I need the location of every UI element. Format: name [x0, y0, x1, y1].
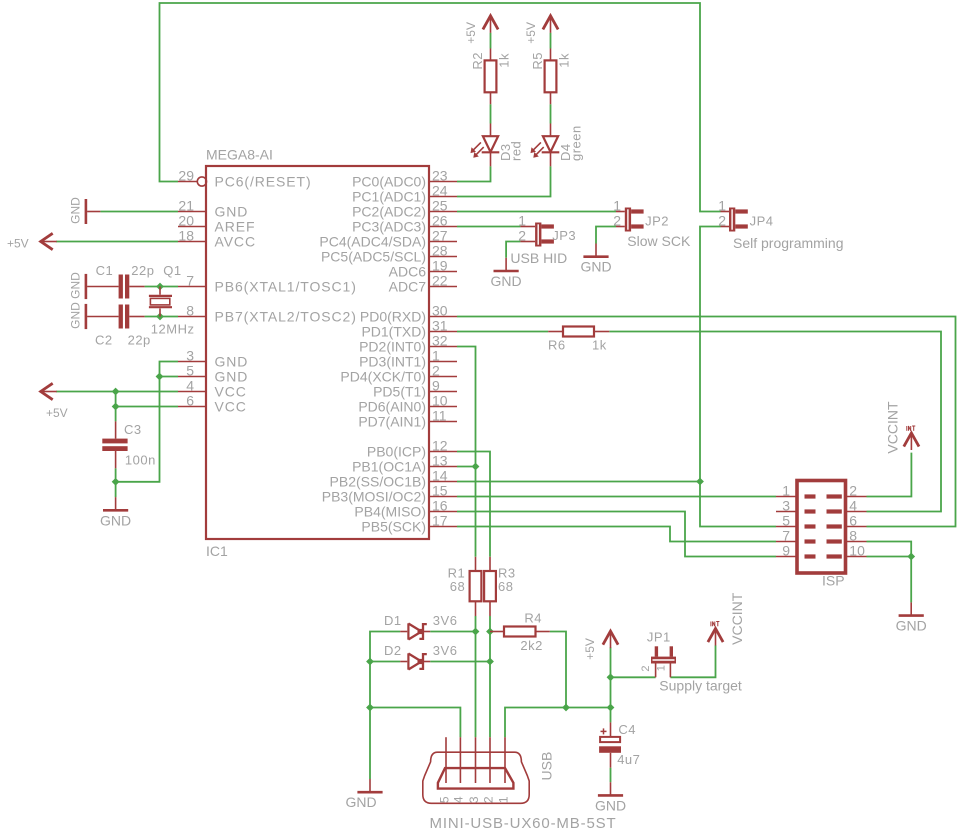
svg-text:PB0(ICP): PB0(ICP) — [367, 444, 426, 460]
svg-text:C4: C4 — [618, 722, 636, 737]
ground symbol below ISP — [896, 602, 927, 633]
VCCINT supply arrow at JP1 — [708, 622, 723, 646]
wire XTAL2 row to IC pin 8 — [145, 316, 178, 318]
svg-text:2: 2 — [640, 665, 652, 671]
svg-text:3: 3 — [782, 498, 790, 514]
svg-text:6: 6 — [849, 513, 857, 529]
svg-text:PC0(ADC0): PC0(ADC0) — [352, 174, 426, 190]
resistor R2 1k — [470, 49, 512, 105]
wire +5V node down to C3 top — [115, 392, 117, 422]
svg-text:1: 1 — [718, 198, 726, 214]
svg-text:ISP: ISP — [822, 573, 845, 589]
capacitor C3 100n — [102, 421, 156, 468]
svg-text:3V6: 3V6 — [433, 643, 458, 658]
resistor R6 1k — [548, 327, 609, 353]
wire net RESET from JP4 pin 2 down to ISP pin 5 — [700, 227, 776, 527]
wire ISP pin 2 to VCCINT arrow — [867, 453, 912, 497]
pin 9 of ISP — [776, 543, 797, 559]
LED D3 red — [471, 124, 524, 167]
svg-text:2: 2 — [613, 213, 621, 229]
wire IC pin 13 joins PD2 column — [457, 466, 476, 468]
svg-text:Self programming: Self programming — [733, 235, 844, 251]
wire R4 right side down to +5V row — [550, 632, 566, 708]
svg-text:28: 28 — [432, 243, 448, 259]
svg-text:GND: GND — [100, 512, 131, 528]
wire +5V to IC pin 18 AVCC — [56, 241, 178, 243]
pin 4 of ISP — [846, 498, 867, 514]
svg-text:23: 23 — [432, 168, 448, 184]
svg-text:PD3(INT1): PD3(INT1) — [359, 354, 426, 370]
svg-text:8: 8 — [186, 303, 194, 319]
svg-text:VCC: VCC — [215, 399, 247, 415]
wire net PD0 from IC pin 30 to ISP pin 6 — [457, 317, 956, 527]
jumper JP2 Slow SCK — [616, 212, 625, 227]
crystal Q1 12MHz — [149, 263, 195, 336]
wire IC pin 26 to JP3 pin 1 — [457, 226, 520, 228]
svg-text:JP1: JP1 — [647, 630, 671, 645]
svg-text:+5V: +5V — [524, 22, 538, 44]
wire +5V arrow to R2 — [490, 33, 492, 49]
svg-text:VCC: VCC — [215, 384, 247, 400]
svg-text:GND: GND — [345, 794, 376, 810]
svg-text:22: 22 — [432, 273, 448, 289]
pin 4 of USB connector — [452, 737, 466, 803]
svg-text:R2: R2 — [470, 52, 485, 70]
jumper JP3 USB HID — [520, 227, 535, 242]
svg-text:7: 7 — [186, 273, 194, 289]
svg-text:68: 68 — [450, 579, 465, 594]
junction — [486, 628, 494, 636]
svg-text:22p: 22p — [131, 263, 154, 278]
zener diode D2 3V6 — [384, 643, 457, 670]
wire IC pin 14 to RESET column — [457, 481, 700, 483]
svg-text:R6: R6 — [548, 338, 566, 353]
svg-text:1k: 1k — [557, 53, 572, 68]
svg-text:7: 7 — [782, 528, 790, 544]
wire ISP pin 10 to GND node — [867, 556, 912, 558]
svg-text:Q1: Q1 — [163, 263, 181, 278]
ground symbol at IC pin 21 — [69, 197, 101, 224]
connector X1 MINI-USB-UX60-MB-5ST — [423, 752, 617, 832]
wire C4 node down to C4 — [610, 708, 612, 723]
wire +5V row to USB pin 1 — [505, 708, 611, 738]
pin 31 PD1(TXD) of IC1 — [361, 318, 457, 340]
capacitor C1 22p — [87, 263, 154, 299]
pin 25 PC2(ADC2) of IC1 — [352, 198, 457, 220]
+5V supply arrow at AVCC — [41, 233, 57, 249]
junction — [907, 553, 915, 561]
wire +5V arrow to R5 — [550, 33, 552, 49]
wire +5V to IC pin 4 VCC — [56, 391, 178, 393]
svg-text:PD6(AIN0): PD6(AIN0) — [358, 399, 426, 415]
junction — [366, 704, 374, 712]
pin 6 VCC of IC1 — [178, 393, 247, 415]
svg-text:JP3: JP3 — [552, 228, 576, 243]
svg-text:PC3(ADC3): PC3(ADC3) — [352, 219, 426, 235]
pin 10 PD6(AIN0) of IC1 — [358, 393, 457, 415]
svg-text:15: 15 — [432, 483, 448, 499]
svg-text:PD2(INT0): PD2(INT0) — [359, 339, 426, 355]
svg-text:9: 9 — [782, 543, 790, 559]
wire R5 to D4 — [550, 104, 552, 123]
pin 12 PB0(ICP) of IC1 — [367, 438, 457, 460]
svg-text:5: 5 — [437, 796, 451, 803]
svg-text:3V6: 3V6 — [433, 613, 458, 628]
svg-text:30: 30 — [432, 303, 448, 319]
svg-text:PC5(ADC5/SCL): PC5(ADC5/SCL) — [321, 249, 426, 265]
svg-text:3: 3 — [186, 348, 194, 364]
svg-text:Slow SCK: Slow SCK — [627, 233, 691, 249]
ground symbol at C2 — [69, 302, 86, 329]
pin 3 GND of IC1 — [178, 348, 248, 370]
svg-text:AREF: AREF — [215, 219, 256, 235]
svg-text:1k: 1k — [592, 338, 607, 353]
svg-text:2k2: 2k2 — [520, 638, 542, 653]
svg-text:17: 17 — [432, 513, 448, 529]
wire D1 cathode to R1 column — [430, 631, 475, 633]
svg-text:1k: 1k — [497, 53, 512, 68]
svg-text:Supply target: Supply target — [659, 678, 742, 694]
ground symbol below JP2 — [580, 244, 611, 275]
wire IC pin 16 MISO to ISP pin 9 — [457, 512, 776, 557]
svg-text:2: 2 — [481, 796, 495, 803]
ground symbol below JP3 — [491, 258, 522, 289]
svg-text:16: 16 — [432, 498, 448, 514]
junction — [472, 463, 480, 471]
pin 5 GND of IC1 — [178, 363, 248, 385]
pin 30 PD0(RXD) of IC1 — [360, 303, 457, 325]
svg-text:C2: C2 — [95, 333, 113, 348]
svg-text:GND: GND — [595, 797, 626, 813]
pin 17 PB5(SCK) of IC1 — [361, 513, 457, 535]
jumper JP4 Self programming — [721, 212, 730, 227]
svg-text:2: 2 — [518, 228, 526, 244]
svg-text:18: 18 — [178, 228, 194, 244]
svg-text:red: red — [509, 141, 524, 161]
wire D2 cathode to R3 column — [430, 661, 490, 663]
svg-text:1: 1 — [432, 348, 440, 364]
svg-text:21: 21 — [178, 198, 194, 214]
pin 26 PC3(ADC3) of IC1 — [352, 213, 457, 235]
pin 9 PD5(T1) of IC1 — [373, 378, 457, 400]
svg-text:PB6(XTAL1/TOSC1): PB6(XTAL1/TOSC1) — [215, 279, 357, 295]
svg-text:100n: 100n — [125, 453, 156, 468]
pin 13 PB1(OC1A) of IC1 — [352, 453, 457, 475]
pin 24 PC1(ADC1) of IC1 — [352, 183, 457, 205]
pin 1 PD3(INT1) of IC1 — [359, 348, 457, 370]
svg-text:GND: GND — [69, 302, 83, 329]
VCCINT supply arrow at ISP pin 2 — [904, 426, 919, 450]
pin 14 PB2(SS/OC1B) of IC1 — [330, 468, 457, 490]
svg-text:GND: GND — [896, 618, 927, 634]
pin 10 of ISP — [846, 543, 867, 559]
capacitor C4 4u7 polarized — [599, 722, 640, 768]
pin 32 PD2(INT0) of IC1 — [359, 333, 457, 355]
svg-text:8: 8 — [849, 528, 857, 544]
pin 20 AREF of IC1 — [178, 213, 255, 235]
junction — [472, 628, 480, 636]
wire net PB0 from IC pin 12 down to R3 — [457, 452, 490, 557]
svg-text:IC1: IC1 — [206, 543, 228, 559]
wire JP1 pin 1 to VCCINT arrow — [670, 645, 715, 677]
resistor R5 1k — [530, 49, 572, 105]
svg-text:11: 11 — [432, 408, 447, 424]
pin 3 of USB connector — [467, 737, 481, 803]
svg-text:PD0(RXD): PD0(RXD) — [360, 309, 426, 325]
pin 1 of USB connector — [496, 737, 510, 803]
pin 8 of ISP — [846, 528, 867, 544]
pin 23 PC0(ADC0) of IC1 — [352, 168, 457, 190]
svg-text:10: 10 — [432, 393, 448, 409]
svg-text:26: 26 — [432, 213, 448, 229]
pin 7 of ISP — [776, 528, 797, 544]
wire JP1 node down to C4 node — [610, 677, 612, 707]
pin 5 of ISP — [776, 513, 797, 529]
svg-text:MEGA8-AI: MEGA8-AI — [206, 147, 273, 163]
svg-text:2: 2 — [849, 483, 857, 499]
IC IC1 MEGA8-AI — [206, 147, 429, 560]
pin 27 PC4(ADC4/SDA) of IC1 — [319, 228, 457, 250]
svg-text:24: 24 — [432, 183, 448, 199]
+5V supply arrow above R5 — [543, 16, 558, 33]
pin 19 ADC6 of IC1 — [389, 258, 457, 280]
svg-text:13: 13 — [432, 453, 448, 469]
svg-text:12: 12 — [432, 438, 448, 454]
svg-text:6: 6 — [186, 393, 194, 409]
svg-text:1: 1 — [496, 796, 510, 803]
svg-text:VCCINT: VCCINT — [729, 592, 745, 645]
svg-text:PB3(MOSI/OC2): PB3(MOSI/OC2) — [322, 489, 426, 505]
ground symbol at C1 — [69, 272, 86, 299]
+5V supply arrow at VCC — [41, 383, 57, 399]
pin 4 VCC of IC1 — [178, 378, 247, 400]
pin 21 GND of IC1 — [178, 198, 248, 220]
svg-text:PB1(OC1A): PB1(OC1A) — [352, 459, 426, 475]
wire XTAL1 row to IC pin 7 — [145, 286, 178, 288]
svg-text:PC4(ADC4/SDA): PC4(ADC4/SDA) — [319, 234, 426, 250]
wire IC pin 15 MOSI to ISP pin 1 — [457, 496, 776, 498]
wire ISP pin 8 to GND node — [867, 542, 912, 557]
svg-text:D1: D1 — [384, 613, 402, 628]
wire GND node down to GND symbol — [910, 557, 912, 603]
svg-text:GND: GND — [491, 273, 522, 289]
resistor R4 2k2 — [490, 611, 550, 653]
svg-text:PD4(XCK/T0): PD4(XCK/T0) — [340, 369, 426, 385]
svg-text:5: 5 — [782, 513, 790, 529]
svg-text:PD7(AIN1): PD7(AIN1) — [358, 414, 426, 430]
wire C3 bottom to GND node — [115, 468, 117, 497]
+5V supply arrow near JP1 — [603, 631, 618, 648]
svg-text:PB5(SCK): PB5(SCK) — [361, 519, 426, 535]
svg-text:GND: GND — [215, 204, 249, 220]
wire IC pin 24 to LED D4 cathode — [457, 166, 551, 196]
svg-text:PC2(ADC2): PC2(ADC2) — [352, 204, 426, 220]
zener diode D1 3V6 — [384, 613, 457, 640]
svg-text:C3: C3 — [124, 422, 142, 437]
svg-text:D2: D2 — [384, 643, 402, 658]
resistor R1 68 — [470, 557, 482, 616]
svg-text:20: 20 — [178, 213, 194, 229]
pin 11 PD7(AIN1) of IC1 — [358, 408, 457, 430]
svg-text:4u7: 4u7 — [617, 752, 640, 767]
wire JP2 pin 2 to GND — [596, 227, 616, 244]
pin 2 PD4(XCK/T0) of IC1 — [340, 363, 457, 385]
svg-text:PB2(SS/OC1B): PB2(SS/OC1B) — [330, 474, 426, 490]
pin 7 PB6(XTAL1/TOSC1) of IC1 — [178, 273, 357, 295]
svg-text:12MHz: 12MHz — [151, 321, 195, 336]
svg-text:1: 1 — [518, 213, 526, 229]
pin 3 of ISP — [776, 498, 797, 514]
ground symbol below D1 D2 — [345, 779, 382, 810]
pin 8 PB7(XTAL2/TOSC2) of IC1 — [178, 303, 357, 325]
junction — [112, 478, 120, 486]
pin 1 of ISP — [776, 483, 797, 499]
svg-text:PB7(XTAL2/TOSC2): PB7(XTAL2/TOSC2) — [215, 309, 357, 325]
wire +5V arrow down to JP1 node — [610, 647, 612, 677]
junction — [607, 704, 615, 712]
svg-text:4: 4 — [849, 498, 857, 514]
wire IC pin 17 SCK to ISP pin 7 — [457, 527, 776, 542]
svg-text:5: 5 — [186, 363, 194, 379]
svg-text:R4: R4 — [524, 611, 542, 626]
pin 2 of ISP — [846, 483, 867, 499]
svg-text:PD5(T1): PD5(T1) — [373, 384, 426, 400]
pin 16 PB4(MISO) of IC1 — [354, 498, 457, 520]
svg-text:1: 1 — [782, 483, 790, 499]
junction — [156, 373, 164, 381]
svg-text:2: 2 — [718, 213, 726, 229]
svg-text:25: 25 — [432, 198, 448, 214]
junction — [607, 673, 615, 681]
wire D2 anode to GND column — [370, 661, 400, 663]
wire JP1 node to JP1 pin 2 — [611, 676, 656, 678]
pin 15 PB3(MOSI/OC2) of IC1 — [322, 483, 457, 505]
svg-text:GND: GND — [69, 197, 83, 224]
ground symbol below C4 — [595, 782, 626, 813]
svg-text:C1: C1 — [96, 263, 114, 278]
wire GND stub IC pin 5 — [160, 376, 179, 378]
wire net RESET from IC pin 29 over top to JP4 pin 1 — [160, 3, 721, 212]
wire GND to IC pin 21 — [100, 211, 178, 213]
wire IC pin 25 to JP2 pin 1 — [457, 211, 616, 213]
connector SV1 ISP 2x5 header — [797, 481, 846, 589]
wire GND from IC pin 3 down to C3 bottom node — [116, 362, 178, 482]
svg-text:9: 9 — [432, 378, 440, 394]
svg-text:GND: GND — [580, 259, 611, 275]
svg-text:19: 19 — [432, 258, 448, 274]
junction — [112, 388, 120, 396]
wire net PD2 from IC pin 32 down to R1 — [457, 347, 476, 557]
svg-text:22p: 22p — [128, 333, 151, 348]
svg-text:4: 4 — [452, 796, 466, 803]
wire R2 to D3 — [490, 104, 492, 123]
pin 18 AVCC of IC1 — [178, 228, 256, 250]
svg-text:+5V: +5V — [7, 237, 29, 251]
svg-text:31: 31 — [432, 318, 448, 334]
svg-text:GND: GND — [69, 272, 83, 299]
wire R6 to ISP pin 4 — [609, 332, 941, 512]
svg-text:3: 3 — [467, 796, 481, 803]
svg-text:JP2: JP2 — [645, 213, 669, 228]
+5V supply arrow above R2 — [483, 16, 498, 33]
svg-text:10: 10 — [849, 543, 865, 559]
wire C4 bottom to GND — [610, 768, 612, 783]
svg-text:14: 14 — [432, 468, 448, 484]
junction — [366, 658, 374, 666]
svg-text:ADC6: ADC6 — [389, 264, 427, 280]
pin 2 of USB connector — [481, 737, 495, 803]
pin 29 PC6(/RESET) of IC1 — [178, 168, 312, 190]
svg-text:GND: GND — [215, 369, 249, 385]
svg-text:29: 29 — [178, 168, 194, 184]
junction — [696, 478, 704, 486]
pin 22 ADC7 of IC1 — [389, 273, 457, 295]
svg-text:68: 68 — [498, 579, 513, 594]
svg-text:PC1(ADC1): PC1(ADC1) — [352, 189, 426, 205]
wire D1 anode left and down to GND — [370, 632, 400, 780]
svg-text:ADC7: ADC7 — [389, 279, 427, 295]
svg-text:JP4: JP4 — [750, 213, 774, 228]
wire IC pin 31 to R6 — [457, 331, 548, 333]
svg-text:VCCINT: VCCINT — [884, 401, 900, 454]
junction — [156, 313, 164, 321]
svg-text:USB: USB — [538, 752, 554, 781]
svg-text:+5V: +5V — [464, 22, 478, 44]
svg-text:32: 32 — [432, 333, 448, 349]
junction — [562, 704, 570, 712]
svg-text:2: 2 — [432, 363, 440, 379]
pin 5 of USB connector — [437, 737, 451, 803]
pin 28 PC5(ADC5/SCL) of IC1 — [321, 243, 457, 265]
svg-text:+5V: +5V — [46, 406, 68, 420]
svg-text:R5: R5 — [530, 52, 545, 70]
wire VCC to IC pin 6 — [116, 406, 178, 408]
LED D4 green — [531, 124, 584, 167]
svg-text:PD1(TXD): PD1(TXD) — [361, 324, 426, 340]
junction — [486, 658, 494, 666]
svg-text:GND: GND — [215, 354, 249, 370]
svg-text:4: 4 — [186, 378, 194, 394]
wire R3 down to USB pin 2 — [489, 616, 491, 737]
svg-text:MINI-USB-UX60-MB-5ST: MINI-USB-UX60-MB-5ST — [430, 815, 617, 832]
junction — [112, 403, 120, 411]
svg-text:AVCC: AVCC — [215, 234, 256, 250]
junction — [156, 283, 164, 291]
svg-text:PC6(/RESET): PC6(/RESET) — [215, 174, 312, 190]
wire R1 down to USB pin 3 — [475, 616, 477, 737]
capacitor C2 22p — [87, 305, 151, 348]
pin 6 of ISP — [846, 513, 867, 529]
jumper JP1 Supply target — [640, 630, 742, 694]
ground symbol below C3 — [100, 497, 131, 528]
svg-text:27: 27 — [432, 228, 448, 244]
svg-text:+5V: +5V — [583, 638, 597, 660]
svg-text:PB4(MISO): PB4(MISO) — [354, 504, 426, 520]
wire JP3 pin 2 to GND — [506, 242, 520, 258]
svg-text:USB HID: USB HID — [510, 250, 567, 266]
svg-text:1: 1 — [613, 198, 621, 214]
wire GND row to USB pin 4 — [370, 708, 460, 738]
wire IC pin 23 to LED D3 cathode — [457, 166, 491, 181]
svg-text:green: green — [569, 125, 584, 161]
resistor R3 68 — [484, 557, 496, 616]
svg-text:1: 1 — [656, 665, 668, 671]
